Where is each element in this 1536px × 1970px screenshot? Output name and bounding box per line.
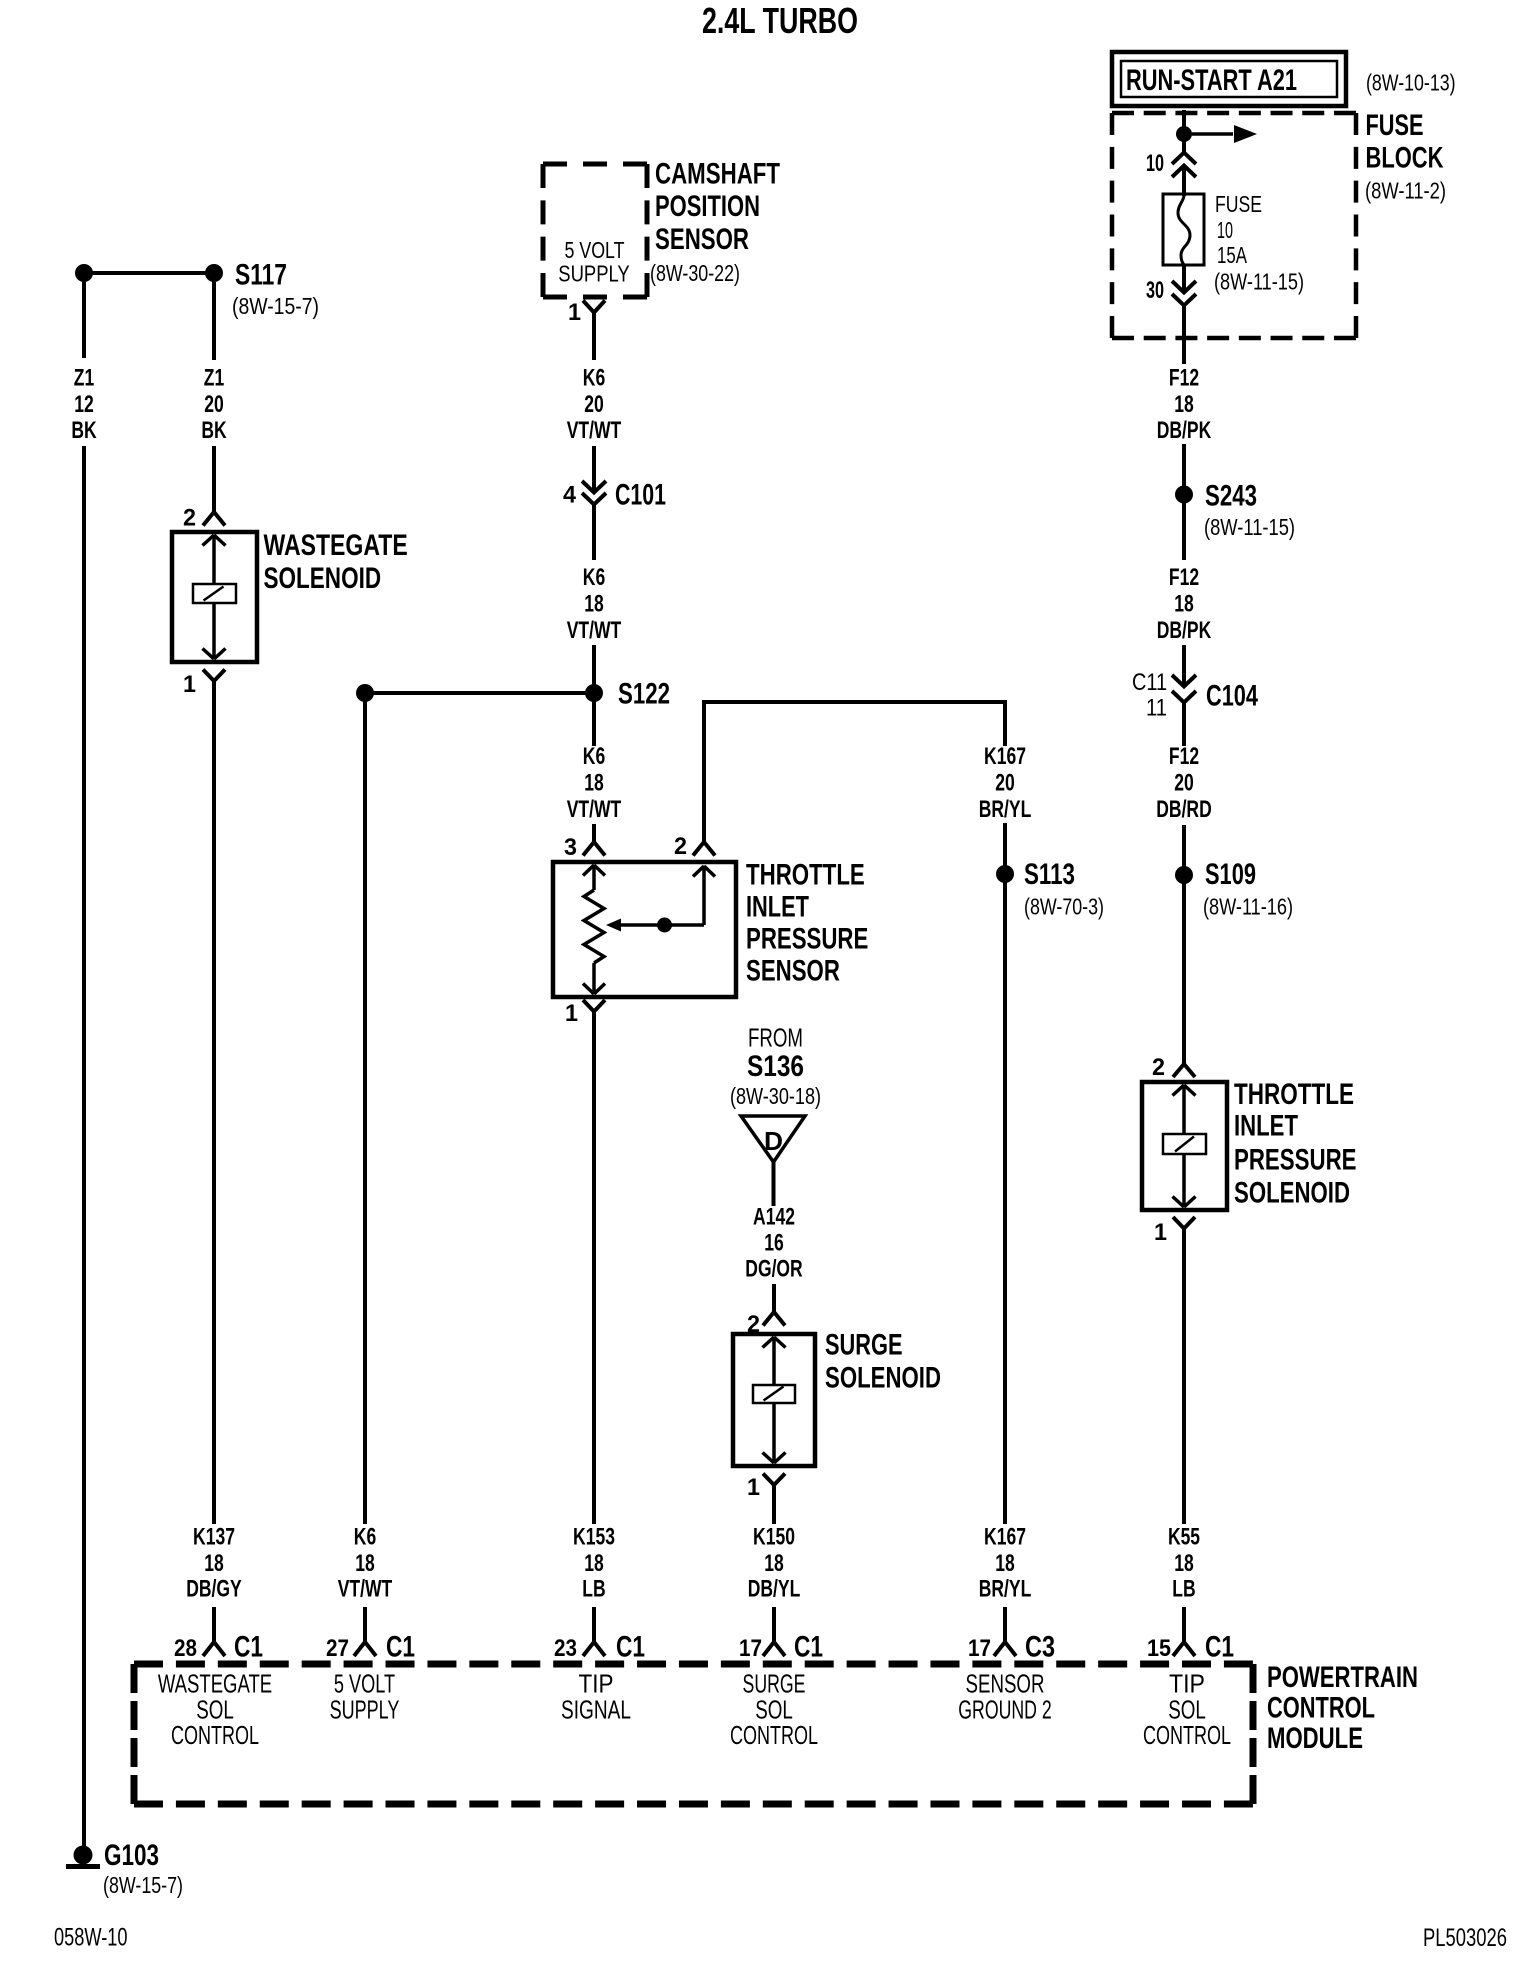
svg-text:D: D	[764, 1126, 783, 1156]
svg-text:18: 18	[995, 1550, 1015, 1577]
svg-text:C1: C1	[234, 1631, 263, 1664]
svg-text:INLET: INLET	[1234, 1110, 1298, 1143]
wire K55 to PCM	[1182, 1607, 1186, 1642]
PCM pin label sensor ground 2	[958, 1669, 1052, 1725]
svg-text:1: 1	[565, 1000, 578, 1027]
svg-text:CONTROL: CONTROL	[730, 1720, 818, 1750]
wire to S122	[592, 645, 596, 746]
wire label Z1 12 BK	[71, 365, 97, 445]
wire to TIP sensor pin 3	[592, 824, 596, 842]
svg-text:K6: K6	[583, 365, 605, 392]
svg-text:12: 12	[74, 391, 94, 418]
connector C101 pin 4	[563, 482, 577, 509]
svg-text:1: 1	[1154, 1219, 1167, 1246]
wire K167 to PCM	[1003, 1607, 1007, 1642]
svg-text:K137: K137	[193, 1524, 235, 1551]
svg-text:CONTROL: CONTROL	[171, 1720, 259, 1750]
svg-text:C1: C1	[386, 1631, 415, 1664]
svg-text:C1: C1	[616, 1631, 645, 1664]
wire label K6 18 VT/WT (mid)	[567, 564, 622, 644]
svg-text:FUSE: FUSE	[1366, 109, 1424, 142]
svg-text:11: 11	[1146, 695, 1167, 722]
pin 1 connector of surge solenoid	[747, 1474, 785, 1502]
svg-text:S243: S243	[1205, 480, 1257, 513]
svg-text:18: 18	[355, 1550, 375, 1577]
reference (8W-11-16) of S109	[1203, 894, 1293, 920]
surge solenoid label	[825, 1329, 941, 1395]
PCM connector pin 28 C1	[174, 1631, 263, 1664]
svg-text:30: 30	[1146, 277, 1164, 304]
PCM connector pin 23 C1	[554, 1631, 645, 1664]
svg-text:FUSE: FUSE	[1215, 191, 1262, 217]
splice S243	[1175, 480, 1257, 513]
PCM connector pin 27 C1	[326, 1631, 415, 1664]
svg-text:Z1: Z1	[74, 365, 94, 392]
svg-text:2: 2	[1152, 1054, 1165, 1081]
wire Z1 20 upper	[212, 282, 216, 360]
svg-text:C101: C101	[615, 479, 666, 512]
wire label K167 20 BR/YL	[979, 743, 1032, 823]
svg-text:15A: 15A	[1217, 242, 1247, 268]
wire K137 from wastegate	[212, 681, 216, 1524]
svg-text:PRESSURE: PRESSURE	[746, 923, 868, 956]
wire Z1 20 to pin 2	[212, 446, 216, 512]
svg-text:28: 28	[174, 1635, 197, 1662]
5 volt supply label in camshaft sensor	[558, 237, 630, 287]
pin 1 connector of TIP sensor	[565, 1000, 605, 1027]
svg-text:SOLENOID: SOLENOID	[1234, 1176, 1350, 1209]
svg-text:DB/PK: DB/PK	[1157, 617, 1212, 644]
svg-text:18: 18	[1174, 391, 1194, 418]
svg-text:VT/WT: VT/WT	[338, 1576, 393, 1603]
connector box RUN-START A21	[1112, 52, 1346, 106]
svg-text:C11: C11	[1132, 669, 1167, 696]
TIP sensor wiper junction dot	[657, 918, 672, 933]
svg-text:K153: K153	[573, 1524, 615, 1551]
connector chevrons pin 30	[1172, 281, 1196, 306]
reference (8W-15-7) of S117	[232, 293, 319, 319]
svg-text:G103: G103	[104, 1839, 159, 1872]
svg-text:4: 4	[563, 482, 577, 509]
svg-text:BK: BK	[201, 417, 227, 444]
svg-text:F12: F12	[1169, 564, 1199, 591]
PCM connector pin 17 C3	[968, 1631, 1055, 1664]
svg-text:DB/RD: DB/RD	[1156, 796, 1212, 823]
svg-text:16: 16	[764, 1230, 784, 1257]
svg-text:(8W-11-2): (8W-11-2)	[1365, 178, 1446, 204]
svg-text:18: 18	[584, 770, 604, 797]
svg-text:S109: S109	[1205, 858, 1256, 891]
wire K150 to PCM	[772, 1607, 776, 1642]
ground G103 symbol	[66, 1846, 100, 1867]
pin 2 connector of TIP solenoid	[1152, 1054, 1195, 1081]
svg-text:10: 10	[1146, 150, 1164, 177]
svg-text:C1: C1	[1205, 1631, 1234, 1664]
wire label K167 18 BR/YL	[979, 1524, 1032, 1603]
svg-text:VT/WT: VT/WT	[567, 796, 622, 823]
pin 2 connector of wastegate solenoid	[183, 505, 225, 532]
wire K153 to PCM	[592, 1607, 596, 1642]
wire label Z1 20 BK	[201, 365, 227, 445]
svg-text:17: 17	[739, 1635, 762, 1662]
PCM pin label wastegate sol control	[158, 1669, 272, 1751]
fuse block dashed box	[1112, 113, 1356, 338]
wire A142 from triangle	[772, 1162, 776, 1206]
surge solenoid coil symbol	[753, 1337, 795, 1463]
PCM connector pin 17 C1	[739, 1631, 823, 1664]
connector C104 pin labels C11 11	[1132, 669, 1167, 722]
wire from RUN-START into fuse block	[1182, 110, 1186, 153]
svg-text:SOLENOID: SOLENOID	[825, 1361, 941, 1394]
wire K150 from surge solenoid	[772, 1485, 776, 1524]
svg-text:S113: S113	[1024, 858, 1075, 891]
svg-text:DG/OR: DG/OR	[745, 1256, 802, 1283]
svg-text:POWERTRAIN: POWERTRAIN	[1267, 1661, 1418, 1694]
wire to C104	[1182, 645, 1186, 686]
svg-text:VT/WT: VT/WT	[567, 617, 622, 644]
svg-text:LB: LB	[1172, 1576, 1195, 1603]
wire pin 2 riser	[702, 700, 706, 842]
pin 10 label	[1146, 150, 1164, 177]
throttle inlet pressure solenoid box	[1142, 1082, 1227, 1210]
PCM connector pin 15 C1	[1147, 1631, 1234, 1664]
svg-text:(8W-15-7): (8W-15-7)	[232, 293, 319, 319]
svg-text:(8W-11-15): (8W-11-15)	[1214, 269, 1304, 295]
sensor signal bus wire	[704, 700, 1005, 704]
svg-text:18: 18	[764, 1550, 784, 1577]
svg-text:DB/YL: DB/YL	[748, 1576, 801, 1603]
reference (8W-30-18) of S136	[730, 1083, 821, 1109]
svg-text:FROM: FROM	[748, 1023, 803, 1053]
wire K167 through S113	[1003, 823, 1007, 1524]
svg-text:20: 20	[1174, 770, 1194, 797]
connector C104 name	[1206, 680, 1258, 713]
svg-text:(8W-30-18): (8W-30-18)	[730, 1083, 821, 1109]
svg-text:K150: K150	[753, 1524, 795, 1551]
wire K137 to PCM	[212, 1607, 216, 1642]
svg-text:DB/GY: DB/GY	[186, 1576, 242, 1603]
svg-text:1: 1	[183, 671, 196, 698]
TIP sensor wiper arm	[606, 866, 715, 932]
fuse block label FUSE BLOCK (8W-11-2)	[1365, 109, 1446, 204]
svg-text:CONTROL: CONTROL	[1143, 1720, 1231, 1750]
svg-text:K6: K6	[583, 743, 605, 770]
wire fuse to pin 30	[1182, 264, 1186, 292]
from S136 label	[747, 1023, 804, 1084]
TIP solenoid coil symbol	[1163, 1085, 1206, 1207]
svg-text:LB: LB	[582, 1576, 605, 1603]
PCM pin label surge sol control	[730, 1669, 818, 1751]
PCM pin label 5 volt supply	[330, 1669, 400, 1725]
svg-text:20: 20	[584, 391, 604, 418]
TIP solenoid label	[1234, 1078, 1357, 1209]
svg-text:MODULE: MODULE	[1267, 1722, 1363, 1755]
wire label F12 18 DB/PK (lower)	[1157, 564, 1212, 644]
wire chevron to fuse	[1182, 166, 1186, 196]
wire Z1 12 to ground	[82, 446, 86, 1849]
svg-text:(8W-10-13): (8W-10-13)	[1366, 70, 1456, 96]
wire label K6 18 VT/WT (sensor)	[567, 743, 622, 823]
wire K6 to PCM	[363, 1607, 367, 1642]
svg-text:C3: C3	[1025, 1631, 1055, 1664]
svg-text:WASTEGATE: WASTEGATE	[264, 529, 408, 562]
svg-text:K6: K6	[354, 1524, 376, 1551]
svg-text:CAMSHAFT: CAMSHAFT	[655, 157, 780, 190]
svg-text:SURGE: SURGE	[825, 1329, 903, 1362]
wire label K55 18 LB	[1168, 1524, 1200, 1603]
wastegate solenoid label	[264, 529, 408, 595]
svg-text:RUN-START A21: RUN-START A21	[1126, 64, 1297, 97]
pin 1 connector of camshaft sensor	[568, 299, 605, 326]
ground G103 label	[104, 1839, 159, 1872]
splice S122 label	[618, 678, 670, 711]
PCM pin label tip signal	[561, 1669, 631, 1725]
svg-text:BK: BK	[71, 417, 97, 444]
drawing number PL503026	[1423, 1924, 1507, 1952]
svg-text:F12: F12	[1169, 365, 1199, 392]
svg-text:Z1: Z1	[204, 365, 224, 392]
wire A142 to surge pin 2	[772, 1284, 776, 1312]
wire label K150 18 DB/YL	[748, 1524, 801, 1603]
svg-text:S117: S117	[235, 259, 287, 292]
svg-text:2: 2	[674, 833, 687, 860]
camshaft position sensor dashed box	[543, 164, 647, 297]
svg-text:5 VOLT: 5 VOLT	[565, 237, 625, 263]
svg-text:20: 20	[995, 770, 1015, 797]
TIP sensor label	[746, 859, 868, 988]
splice S122 bus wire	[365, 691, 594, 695]
svg-text:SOLENOID: SOLENOID	[264, 562, 382, 595]
wire K153 from TIP sensor	[592, 1011, 596, 1524]
wire to C101	[592, 446, 596, 492]
svg-text:SUPPLY: SUPPLY	[558, 261, 630, 287]
svg-text:18: 18	[1174, 1550, 1194, 1577]
wire to S109 and TIP solenoid	[1182, 825, 1186, 1064]
wire K6 20 from camshaft sensor	[592, 312, 596, 360]
svg-text:K55: K55	[1168, 1524, 1200, 1551]
wire K167 upper	[1003, 700, 1007, 746]
reference (8W-15-7) of G103	[103, 1872, 183, 1898]
svg-text:(8W-30-22): (8W-30-22)	[650, 260, 740, 286]
PCM name label	[1267, 1661, 1418, 1755]
pin 2 connector of TIP sensor	[674, 833, 715, 860]
svg-text:SENSOR: SENSOR	[746, 955, 840, 988]
svg-text:F12: F12	[1169, 743, 1199, 770]
svg-text:C1: C1	[794, 1631, 823, 1664]
splice S122 branch dot	[356, 684, 374, 702]
reference (8W-10-13)	[1366, 70, 1456, 96]
wire C104 to label	[1182, 702, 1186, 746]
svg-text:18: 18	[584, 591, 604, 618]
svg-text:1: 1	[568, 299, 581, 326]
svg-text:POSITION: POSITION	[655, 190, 760, 223]
svg-text:2: 2	[183, 505, 196, 532]
pin 3 connector of TIP sensor	[564, 834, 605, 861]
wire label K6 18 VT/WT (supply)	[338, 1524, 393, 1603]
svg-text:A142: A142	[753, 1204, 795, 1231]
svg-text:K6: K6	[583, 564, 605, 591]
off-page triangle D	[741, 1116, 805, 1162]
svg-text:BLOCK: BLOCK	[1366, 142, 1444, 175]
svg-text:17: 17	[968, 1635, 991, 1662]
svg-text:1: 1	[747, 1474, 760, 1501]
splice S113	[996, 858, 1075, 891]
svg-text:S122: S122	[618, 678, 670, 711]
surge solenoid box	[733, 1334, 815, 1466]
reference (8W-11-15) of S243	[1204, 514, 1295, 540]
wire label F12 18 DB/PK (upper)	[1157, 365, 1212, 445]
wire label K137 18 DB/GY	[186, 1524, 242, 1603]
wire K55 from TIP solenoid	[1182, 1228, 1186, 1524]
svg-text:(8W-11-16): (8W-11-16)	[1203, 894, 1293, 920]
connector C101 name	[615, 479, 666, 512]
title 2.4L TURBO	[702, 0, 858, 41]
wire label A142 16 DG/OR	[745, 1204, 802, 1283]
svg-text:(8W-15-7): (8W-15-7)	[103, 1872, 183, 1898]
wire Z1 12 upper	[82, 282, 86, 358]
fuse label FUSE 10 15A (8W-11-15)	[1214, 191, 1304, 295]
arrow feed to other circuits	[1192, 125, 1257, 143]
svg-text:CONTROL: CONTROL	[1267, 1692, 1375, 1725]
svg-text:18: 18	[204, 1550, 224, 1577]
wastegate solenoid box	[172, 532, 257, 662]
svg-text:3: 3	[564, 834, 577, 861]
powertrain control module dashed box	[134, 1664, 1253, 1804]
svg-text:SIGNAL: SIGNAL	[561, 1694, 631, 1724]
TIP sensor potentiometer	[583, 865, 605, 994]
svg-text:23: 23	[554, 1635, 577, 1662]
svg-text:SENSOR: SENSOR	[655, 223, 749, 256]
fuse F10 15A element	[1163, 194, 1204, 265]
svg-text:BR/YL: BR/YL	[979, 796, 1032, 823]
svg-text:K167: K167	[984, 1524, 1026, 1551]
wire label K6 20 VT/WT	[567, 365, 622, 445]
svg-text:THROTTLE: THROTTLE	[746, 859, 865, 892]
reference (8W-30-22) of camshaft sensor	[650, 260, 740, 286]
reference (8W-70-3) of S113	[1024, 894, 1104, 920]
pin 30 label	[1146, 277, 1164, 304]
svg-text:2.4L TURBO: 2.4L TURBO	[702, 0, 858, 41]
PCM pin label tip sol control	[1143, 1669, 1231, 1751]
connector C101 chevrons	[582, 481, 606, 505]
svg-text:S136: S136	[747, 1050, 804, 1083]
svg-text:K167: K167	[984, 743, 1026, 770]
svg-text:BR/YL: BR/YL	[979, 1576, 1032, 1603]
svg-text:PL503026: PL503026	[1423, 1924, 1507, 1952]
svg-text:INLET: INLET	[746, 891, 809, 924]
svg-text:27: 27	[326, 1635, 349, 1662]
svg-text:C104: C104	[1206, 680, 1258, 713]
svg-text:THROTTLE: THROTTLE	[1234, 1078, 1354, 1111]
pin 2 connector of surge solenoid	[747, 1311, 785, 1338]
wire label K153 18 LB	[573, 1524, 615, 1603]
splice S117 label	[235, 259, 287, 292]
sheet number 058W-10	[54, 1924, 128, 1952]
splice S117 bus wire	[84, 271, 214, 275]
splice S117 dots	[75, 264, 223, 282]
wire to S243	[1182, 444, 1186, 560]
svg-text:DB/PK: DB/PK	[1157, 417, 1212, 444]
svg-text:GROUND 2: GROUND 2	[958, 1694, 1052, 1724]
svg-text:18: 18	[1174, 591, 1194, 618]
svg-text:18: 18	[584, 1550, 604, 1577]
camshaft position sensor label	[655, 157, 780, 256]
svg-text:PRESSURE: PRESSURE	[1234, 1144, 1357, 1177]
svg-text:SUPPLY: SUPPLY	[330, 1694, 400, 1724]
svg-text:058W-10: 058W-10	[54, 1924, 128, 1952]
wire F12 below fuse block	[1182, 305, 1186, 364]
wire 5 volt supply leg	[363, 693, 367, 1524]
svg-text:VT/WT: VT/WT	[567, 417, 622, 444]
wire C101 to label	[592, 504, 596, 560]
svg-text:20: 20	[204, 391, 224, 418]
svg-text:10: 10	[1217, 217, 1233, 243]
svg-text:(8W-11-15): (8W-11-15)	[1204, 514, 1295, 540]
pin 1 connector of wastegate solenoid	[183, 670, 225, 699]
wastegate solenoid coil symbol	[193, 535, 236, 659]
connector C104 chevrons	[1172, 675, 1196, 703]
pin 1 connector of TIP solenoid	[1154, 1217, 1195, 1246]
connector chevrons pin 10	[1172, 153, 1196, 178]
svg-text:15: 15	[1147, 1635, 1171, 1662]
svg-text:(8W-70-3): (8W-70-3)	[1024, 894, 1104, 920]
wire label F12 20 DB/RD	[1156, 743, 1212, 823]
splice S122 dot	[585, 684, 603, 702]
splice S109	[1175, 858, 1256, 891]
junction dot in fuse block	[1176, 126, 1192, 142]
throttle inlet pressure sensor box	[553, 862, 736, 997]
